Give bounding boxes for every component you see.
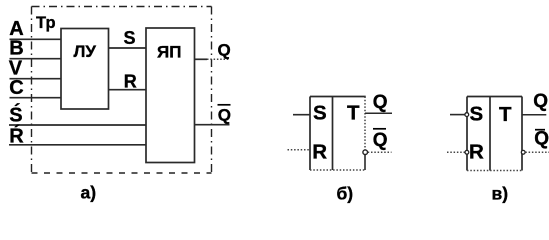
б: output Q̄ overline: [373, 128, 386, 130]
wire Ś: [9, 124, 146, 126]
dashed enclosure right edge: [211, 7, 213, 174]
в: output wire Q̄ dotted: [525, 151, 549, 153]
dashed enclosure left edge: [31, 7, 33, 174]
svg-text:Q: Q: [218, 106, 231, 125]
wire C: [10, 97, 62, 99]
в: box outline: [466, 97, 468, 171]
output Q̄ overline: [218, 104, 231, 106]
memory cell ЯП box: [146, 28, 195, 163]
svg-text:Q: Q: [373, 92, 388, 113]
б: box divider: [332, 97, 334, 171]
б: box bottom edge dotted: [310, 169, 365, 171]
dashed enclosure bottom edge: [32, 172, 212, 174]
wire B: [10, 58, 62, 60]
output Q̄ wire: [195, 124, 230, 126]
в: input wire S: [450, 114, 465, 116]
svg-text:б): б): [337, 184, 354, 204]
svg-text:R: R: [312, 141, 327, 164]
output Q wire dotted part: [207, 58, 229, 60]
б: box right edge solid lower part: [364, 154, 366, 170]
wire Ŕ: [9, 144, 146, 146]
в: output Q̄ overline: [535, 129, 545, 131]
б: output wire Q: [365, 112, 392, 114]
б: input wire S: [293, 114, 310, 116]
б: box top edge: [310, 96, 366, 98]
в: inversion circle on Q̄ output: [521, 150, 525, 154]
б: output wire Q̄ dotted: [368, 151, 392, 153]
в: box top edge: [467, 96, 522, 98]
в: output wire Q: [522, 114, 546, 116]
svg-text:T: T: [499, 103, 512, 126]
svg-text:R: R: [469, 140, 484, 163]
svg-text:C: C: [9, 77, 23, 99]
svg-text:B: B: [9, 38, 23, 60]
dashed enclosure top edge: [32, 6, 212, 8]
в: input wire R dotted: [447, 151, 465, 153]
б: input wire R dotted: [288, 149, 311, 151]
в: box right edge: [521, 97, 523, 171]
svg-text:S: S: [124, 28, 136, 48]
wire S (ЛУ to ЯП): [109, 47, 147, 49]
svg-text:Тр: Тр: [36, 14, 56, 32]
svg-text:в): в): [492, 184, 509, 204]
svg-text:S: S: [470, 103, 484, 126]
svg-text:Q: Q: [218, 40, 231, 59]
svg-text:S: S: [313, 102, 327, 125]
в: inversion circle on R input: [465, 150, 469, 154]
б: box right edge dotted: [364, 97, 366, 150]
svg-text:R: R: [124, 71, 137, 91]
в: inversion circle on S input: [465, 113, 469, 117]
б: box left edge: [309, 97, 311, 171]
svg-text:Ś: Ś: [9, 102, 22, 126]
svg-text:T: T: [347, 101, 360, 124]
wire R (ЛУ to ЯП): [109, 89, 147, 91]
logic unit ЛУ box: [61, 29, 109, 110]
wire V: [10, 78, 62, 80]
svg-text:ЯП: ЯП: [157, 43, 181, 62]
svg-text:Q: Q: [534, 128, 549, 149]
в: box bottom edge dotted: [467, 170, 522, 172]
svg-text:Q: Q: [533, 91, 548, 112]
б: inversion circle on Q̄: [363, 150, 368, 155]
svg-text:а): а): [81, 183, 97, 203]
svg-text:Q: Q: [373, 130, 388, 151]
wire A: [10, 38, 62, 40]
svg-text:ЛУ: ЛУ: [74, 42, 97, 61]
в: box divider: [489, 97, 491, 171]
output Q wire solid part: [195, 58, 208, 60]
